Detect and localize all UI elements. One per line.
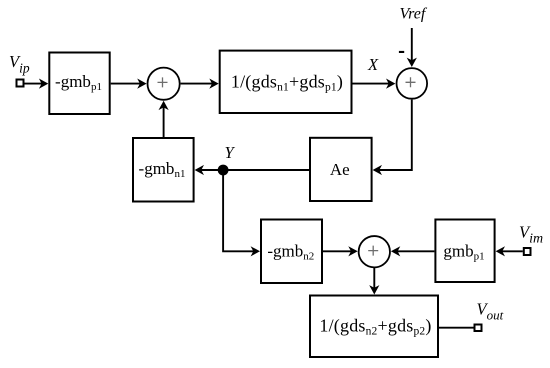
arrowhead Vref into S2 top (down) bbox=[407, 58, 417, 67]
wire Vref down into S2 bbox=[411, 28, 413, 62]
plus sign in S2 bbox=[406, 77, 416, 87]
minus sign at S2 input bbox=[399, 51, 404, 53]
arrowhead into S2 left bbox=[386, 79, 395, 89]
block -gmbn1 (B4) bbox=[133, 138, 194, 202]
arrowhead into -gmbp1 bbox=[39, 79, 48, 89]
wire S3 down into 1/(gdsn2+gdsp2) bbox=[373, 267, 375, 288]
wire S2 down and left into Ae bbox=[379, 100, 412, 170]
wire node Y down and right into -gmbn2 bbox=[223, 170, 254, 251]
svg-text:X: X bbox=[367, 55, 379, 74]
arrowhead into S3 left (right) bbox=[348, 246, 357, 256]
summing junction S3 bbox=[359, 236, 390, 267]
wire -gmbn1 up into S1 bbox=[163, 107, 165, 138]
arrowhead into -gmbn2 left (right) bbox=[251, 246, 260, 256]
arrowhead into S1 left bbox=[137, 79, 146, 89]
wire S1 to 1/(gdsn1+gdsp1) bbox=[181, 83, 213, 85]
wire -gmbp1 to sum S1 bbox=[111, 83, 141, 85]
summing junction S1 bbox=[148, 68, 180, 100]
arrowhead into S1 bottom (up) bbox=[159, 101, 169, 110]
block Ae (B3) bbox=[310, 138, 372, 201]
wire 1/(gdsn2+gdsp2) to Vout terminal bbox=[439, 327, 474, 329]
arrowhead into Ae right (left) bbox=[373, 165, 382, 175]
wire Vim terminal to gmbp1 bbox=[502, 250, 523, 252]
wire -gmbn2 to sum S3 bbox=[323, 250, 352, 252]
arrowhead into -gmbn1 right (left) bbox=[195, 165, 204, 175]
terminal Vout bbox=[475, 325, 482, 332]
wire Ae output left through node Y into -gmbn1 bbox=[201, 169, 310, 171]
wire 1/(gdsn1+gdsp1) to sum S2 (node X) bbox=[353, 83, 390, 85]
wire Vip terminal to -gmbp1 bbox=[25, 83, 43, 85]
arrowhead into S3 right (left) bbox=[391, 246, 400, 256]
arrowhead into gmbp1 right (left) bbox=[496, 246, 505, 256]
wire gmbp1 to sum S3 bbox=[397, 250, 434, 252]
arrowhead into 1/(gdsn1+gdsp1) bbox=[209, 79, 218, 89]
terminal Vim bbox=[524, 248, 531, 255]
terminal Vip bbox=[17, 80, 24, 87]
block gmbp1 (B6) bbox=[435, 220, 494, 283]
svg-text:Ae: Ae bbox=[330, 160, 350, 179]
block 1/(gdsn1+gdsp1) (B2) bbox=[220, 51, 352, 113]
plus sign in S1 bbox=[158, 77, 168, 87]
node Y junction dot bbox=[218, 165, 229, 176]
summing junction S2 bbox=[397, 68, 428, 99]
svg-text:Vref: Vref bbox=[400, 6, 428, 23]
block 1/(gdsn2+gdsp2) (B7) bbox=[310, 296, 438, 358]
arrowhead into 1/(gdsn2+gdsp2) top (down) bbox=[369, 285, 379, 294]
block -gmbn2 (B5) bbox=[261, 220, 322, 284]
plus sign in S3 bbox=[368, 246, 378, 256]
block -gmbp1 (B1) bbox=[49, 53, 109, 115]
